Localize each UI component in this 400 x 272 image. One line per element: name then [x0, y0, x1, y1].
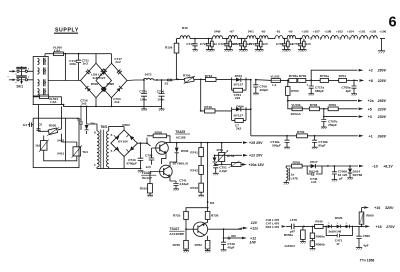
svg-text:–10: –10: [372, 165, 378, 169]
svg-text:+101: +101: [358, 30, 365, 34]
capacitor C722 1n to ground: [200, 38, 211, 52]
svg-text:BY164: BY164: [118, 140, 128, 144]
junction node: [140, 142, 148, 144]
ground under C7008: [332, 180, 338, 182]
svg-text:D502: D502: [122, 123, 130, 127]
bridge D502 stub: [123, 127, 125, 130]
svg-text:-67: -67: [229, 30, 234, 34]
arrow +16 320V: [362, 206, 394, 210]
wire chain segments: [190, 38, 385, 40]
svg-text:400µF: 400µF: [259, 88, 268, 92]
diode D498a on bridge edge: [101, 69, 107, 75]
arrow +16 270V: [362, 225, 396, 229]
resistor P540: [304, 219, 326, 228]
drawing number TTV 1958: [360, 259, 375, 263]
label 1n5404: [284, 244, 295, 248]
inductor -60: [287, 30, 295, 39]
svg-text:D520: D520: [335, 216, 343, 220]
resistor beside C724: [258, 39, 268, 52]
svg-text:1n: 1n: [214, 42, 218, 46]
wire TS425 emitter down: [162, 153, 167, 158]
svg-text:S1: S1: [165, 81, 169, 85]
diode D520a: [326, 223, 331, 229]
bridge diamond left outline: [81, 63, 112, 98]
svg-text:G4: G4: [23, 123, 27, 127]
rail to TS427: [186, 207, 209, 212]
ground under R566b: [310, 249, 316, 251]
ground under C741: [173, 189, 179, 191]
svg-text:250µF: 250µF: [328, 123, 337, 127]
svg-text:1,4: 1,4: [272, 83, 277, 87]
thermistor R503: [35, 139, 64, 152]
svg-text:T6/S: T6/S: [100, 125, 108, 129]
diode D500b on bridge edge: [85, 86, 91, 92]
wire down from bus: [64, 54, 66, 81]
svg-text:C770: C770: [139, 89, 147, 93]
svg-text:1n5: 1n5: [306, 42, 312, 46]
junction node: [95, 106, 112, 108]
measuring point M1: [207, 201, 215, 205]
svg-text:+105: +105: [302, 30, 309, 34]
svg-text:100n: 100n: [69, 62, 76, 66]
arrow +2 280V: [359, 69, 387, 73]
capacitor C770 100n: [139, 80, 147, 106]
capacitor C706b 400uF: [253, 79, 268, 93]
label BTY86: [173, 161, 189, 165]
inductor +105: [302, 30, 378, 39]
svg-text:+5: +5: [368, 107, 372, 111]
svg-text:-65: -65: [261, 30, 266, 34]
svg-text:12V: 12V: [251, 221, 258, 225]
svg-text:D517: D517: [310, 160, 318, 164]
capacitor C718b 80uF: [312, 135, 328, 148]
svg-text:320V: 320V: [385, 206, 394, 210]
ground under C707b: [321, 127, 327, 129]
junction node: [323, 108, 325, 110]
label C704 2n2: [113, 97, 121, 104]
svg-text:R566b: R566b: [316, 242, 325, 246]
zener D514: [345, 165, 363, 178]
fuse VL502: [256, 75, 289, 87]
ground under C743: [138, 168, 144, 173]
label D520: [335, 216, 343, 220]
junction node: [200, 79, 202, 81]
svg-text:R742: R742: [190, 168, 198, 172]
right rail of diode section: [246, 79, 252, 136]
svg-text:TH1: TH1: [82, 150, 88, 154]
wire D502 to TS425: [137, 138, 150, 146]
choke 5473: [144, 73, 154, 80]
filter winding 1: [38, 58, 46, 65]
ground under R510: [147, 195, 153, 197]
svg-text:2k2: 2k2: [235, 96, 240, 100]
svg-text:260V: 260V: [377, 134, 387, 138]
svg-text:270V: 270V: [385, 225, 395, 229]
lower bus wire 2: [64, 105, 162, 107]
resistor R742: [190, 157, 203, 175]
svg-text:3xBA148: 3xBA148: [328, 230, 341, 234]
svg-text:R556a: R556a: [284, 233, 293, 237]
svg-text:100n: 100n: [140, 97, 147, 101]
label D502: [122, 123, 130, 127]
transistor TS426: [157, 158, 172, 177]
svg-text:230V: 230V: [377, 115, 387, 119]
svg-text:1: 1: [94, 163, 96, 167]
fuse VL500: [53, 46, 64, 56]
label BY164: [118, 140, 128, 144]
capacitor C711 on bridge edge: [86, 70, 91, 75]
capacitor C560 4uF: [356, 226, 370, 247]
svg-text:BY127: BY127: [234, 114, 244, 118]
capacitor C717 on bridge edge: [117, 70, 122, 75]
svg-text:220V: 220V: [377, 107, 387, 111]
diode D498b on bridge edge: [117, 86, 123, 92]
svg-text:-61: -61: [276, 30, 281, 34]
inductor +103: [336, 30, 343, 34]
bridge diamond right outline: [96, 63, 127, 98]
svg-text:µF: µF: [339, 177, 343, 181]
svg-text:1n5: 1n5: [311, 180, 317, 184]
junction node: [200, 142, 202, 144]
capacitor C471 bypass: [325, 226, 353, 247]
arrow into net: [282, 225, 291, 227]
svg-text:R741: R741: [190, 151, 198, 155]
svg-text:D501: D501: [235, 74, 243, 78]
label bridge types: [91, 73, 114, 86]
junction node: [78, 53, 80, 55]
svg-text:B46: B46: [182, 26, 188, 30]
svg-text:40µF: 40µF: [227, 246, 234, 250]
wire bridge output: [127, 79, 144, 82]
ground under R730: [183, 249, 189, 253]
svg-text:L478: L478: [290, 218, 297, 222]
arrow +8 225V: [360, 79, 387, 83]
svg-text:SUPPLY: SUPPLY: [55, 27, 79, 33]
arrow +5 220V: [359, 107, 387, 111]
thermistor TH1: [57, 145, 88, 158]
arrow +2s 285V: [358, 99, 387, 103]
capacitor C717a 680uF: [307, 80, 325, 93]
svg-text:BY127: BY127: [234, 83, 244, 87]
wire bus down-left of bridge: [48, 80, 80, 82]
diode D517: [307, 160, 328, 173]
svg-text:+107: +107: [313, 30, 320, 34]
capacitor C704b on bridge edge: [101, 87, 106, 92]
resistor R704a: [311, 74, 339, 82]
svg-text:R560: R560: [366, 214, 374, 218]
wires inside box: [39, 118, 77, 161]
wire connector to filter: [28, 71, 34, 80]
resistor R708b: [309, 103, 328, 111]
label C5: [36, 122, 42, 130]
inductor -67: [229, 30, 238, 39]
capacitor C710 100n: [69, 54, 81, 81]
bridge stubs to top bus: [96, 54, 112, 64]
svg-text:P540: P540: [315, 219, 323, 223]
filter winding 4: [38, 88, 46, 95]
ground under C560: [356, 248, 362, 250]
svg-text:285V: 285V: [377, 99, 387, 103]
svg-text:D498: D498: [107, 82, 115, 86]
svg-text:+25 25V: +25 25V: [249, 141, 263, 145]
svg-text:4µF: 4µF: [363, 244, 369, 248]
capacitor C749 40uF: [221, 237, 235, 250]
svg-text:+104: +104: [347, 30, 354, 34]
svg-text:R704: R704: [339, 74, 347, 78]
ground under R556: [300, 242, 306, 244]
starter circuit box: [33, 118, 79, 167]
resistor R711 on +1 line: [297, 130, 308, 138]
diode D511 between rails: [213, 155, 217, 164]
svg-text:R756: R756: [183, 73, 191, 77]
resistor R720 on +20a line: [228, 161, 242, 168]
wire TS425 collector to +25 rail: [166, 142, 208, 144]
diode D520c: [341, 223, 362, 229]
ground under C708a: [351, 94, 357, 96]
svg-text:M3: M3: [231, 234, 236, 238]
capacitor C706 100n: [157, 80, 165, 106]
svg-text:+22 20V: +22 20V: [249, 154, 263, 158]
wire chain end down: [381, 39, 383, 51]
svg-text:R706a R706: R706a R706: [289, 74, 307, 78]
ground under R762: [205, 249, 211, 253]
resistor beside C722: [209, 39, 217, 52]
svg-text:4,64µF: 4,64µF: [179, 182, 189, 186]
wire TS426 emitter down: [150, 172, 176, 184]
capacitor C708 1n5: [145, 148, 154, 169]
svg-text:C720: C720: [218, 42, 226, 46]
svg-text:D500: D500: [91, 82, 99, 86]
svg-text:SK1: SK1: [16, 85, 23, 89]
capacitor C716 on bridge edge: [101, 87, 106, 92]
svg-text:-60: -60: [288, 30, 293, 34]
wire TS426 collector up to zener: [170, 159, 177, 167]
svg-text:2,2µF: 2,2µF: [219, 169, 227, 173]
resistor R708 feedback: [147, 130, 170, 142]
label C716 2n2: [80, 98, 88, 105]
page number 6: [389, 15, 397, 31]
svg-text:+8,1V: +8,1V: [383, 165, 393, 169]
capacitor C743 4700uF: [126, 143, 143, 168]
svg-text:R704a: R704a: [320, 74, 329, 78]
capacitor C750 1n to ground: [276, 38, 287, 52]
svg-text:2k2: 2k2: [236, 127, 241, 131]
connector SK1 contacts: [16, 68, 28, 89]
resistor R741: [190, 143, 203, 157]
svg-text:C706: C706: [157, 89, 165, 93]
svg-text:BZY88: BZY88: [353, 173, 363, 177]
line filter box: [33, 57, 48, 97]
ground under C718a: [284, 147, 290, 149]
resistor R703 parallel: [232, 107, 246, 130]
capacitor X2 across mains: [16, 76, 26, 77]
svg-text:VL502: VL502: [270, 75, 279, 79]
transformer core: [101, 130, 104, 169]
arrow -10 8.1V: [359, 165, 393, 169]
ground under C749: [221, 250, 227, 252]
arrow +25 25V: [243, 141, 263, 145]
resistor R560 vertical: [359, 208, 374, 227]
capacitor L478 u47: [290, 218, 304, 233]
svg-text:+20a 18V: +20a 18V: [248, 163, 264, 167]
svg-text:+16: +16: [374, 206, 380, 210]
left rail down: [200, 79, 202, 111]
inductor +102: [369, 30, 376, 34]
junction node: [65, 53, 67, 55]
junction wire to R720: [215, 164, 232, 166]
lower bus wire 1: [33, 96, 64, 105]
svg-text:R700: R700: [291, 89, 299, 93]
svg-text:R510: R510: [140, 187, 148, 191]
measuring point M3: [224, 229, 243, 239]
svg-text:C723: C723: [233, 42, 241, 46]
capacitor C7008: [328, 165, 348, 181]
inductor 54/1: [247, 30, 256, 39]
fuse VL503: [291, 103, 310, 116]
svg-text:C717: C717: [186, 42, 194, 46]
inductor -61: [275, 30, 283, 39]
inductor +107: [313, 30, 320, 34]
svg-text:R156: R156: [165, 45, 173, 49]
resistor R704: [339, 74, 358, 82]
svg-text:R725: R725: [173, 214, 181, 218]
svg-text:2n2: 2n2: [81, 102, 87, 106]
ground under C706b: [253, 93, 259, 95]
wire filter top to bus: [44, 54, 46, 57]
svg-text:+2: +2: [369, 69, 373, 73]
wire D502 bottom: [123, 157, 125, 169]
varistor R756 on line: [183, 73, 201, 83]
svg-text:M1: M1: [210, 201, 215, 205]
junction node: [80, 106, 87, 108]
diode D502b: [126, 134, 134, 140]
wire taps from lower bus to box: [39, 105, 62, 119]
resistor beside C751: [301, 39, 311, 52]
diode D520b: [332, 223, 341, 229]
svg-text:470k: 470k: [216, 148, 223, 152]
arrow +12: [242, 236, 256, 244]
wire link to R718: [172, 78, 184, 81]
svg-text:C5: C5: [77, 118, 81, 122]
svg-text:D503: D503: [181, 149, 189, 153]
resistor R726: [205, 211, 218, 222]
capacitor C741: [173, 178, 189, 188]
svg-text:9: 9: [94, 130, 96, 134]
transformer T6/S label: [100, 125, 108, 129]
resistor R556 vertical: [284, 226, 305, 241]
resistor R700 vertical: [286, 80, 299, 100]
off-page reference text block: [266, 218, 280, 229]
junction node output: [223, 228, 225, 230]
svg-text:TTv 1958: TTv 1958: [360, 259, 375, 263]
capacitor C751 1n5 to ground: [292, 38, 303, 52]
junction node: [143, 79, 162, 81]
junction node: [327, 165, 329, 167]
winding L478: [286, 166, 298, 181]
svg-text:+103: +103: [336, 30, 343, 34]
resistor R708c: [292, 160, 308, 168]
label C717 2n2: [114, 57, 122, 64]
fuse VL501: [33, 95, 61, 105]
resistor R566a vertical: [310, 226, 325, 238]
svg-text:R730: R730: [173, 243, 181, 247]
capacitor X1 across mains: [16, 66, 26, 69]
diode D500a on bridge edge: [101, 69, 107, 75]
junction node: [310, 80, 312, 82]
svg-text:4700µF: 4700µF: [126, 162, 137, 166]
capacitor C718a 200uF: [270, 135, 289, 148]
svg-text:5473: 5473: [145, 73, 152, 77]
label 3xBA148: [328, 230, 341, 234]
svg-text:54/1: 54/1: [248, 30, 254, 34]
capacitor C724 1n5 to ground: [249, 38, 260, 52]
wire TS427 collector: [205, 221, 208, 224]
label TS426: [141, 171, 156, 180]
svg-text:+2s: +2s: [368, 99, 374, 103]
svg-text:1n5: 1n5: [146, 165, 152, 169]
svg-text:2n2: 2n2: [114, 100, 120, 104]
zener D503: [175, 142, 189, 159]
filter winding 3: [38, 79, 46, 86]
inductor +104: [347, 30, 354, 34]
ground after C770: [141, 106, 147, 111]
inductor +101: [358, 30, 365, 34]
potentiometer R753: [216, 142, 235, 165]
svg-text:R753: R753: [227, 154, 235, 158]
svg-text:+3: +3: [368, 115, 372, 119]
svg-text:+1: +1: [369, 134, 373, 138]
resistor R718: [201, 74, 232, 82]
svg-text:C750: C750: [276, 42, 284, 46]
resistor R725: [173, 211, 188, 229]
svg-text:100n: 100n: [157, 97, 164, 101]
capacitor C720 1n5 to ground: [218, 38, 229, 52]
svg-text:+100: +100: [379, 30, 386, 34]
capacitor on box left edge: [28, 122, 33, 127]
resistor R156 vertical: [165, 39, 179, 80]
svg-text:C751: C751: [292, 42, 300, 46]
svg-text:80µF: 80µF: [318, 144, 325, 148]
svg-text:D16 L476: D16 L476: [266, 225, 280, 229]
svg-text:6: 6: [111, 133, 113, 137]
+25 rail wire: [207, 142, 242, 144]
resistor R709: [328, 103, 358, 111]
transistor TS427: [186, 222, 208, 236]
ground after C706: [159, 106, 165, 111]
arrow +20a 18V: [242, 163, 264, 167]
ground under R743: [198, 195, 204, 197]
link connector S1: [165, 79, 173, 85]
label C711 2n2: [82, 58, 90, 65]
ground chain end: [378, 51, 385, 54]
ground under C717a: [308, 94, 314, 96]
resistor R566b vertical: [310, 226, 325, 249]
svg-text:+8: +8: [369, 79, 373, 83]
resistor R730: [173, 228, 189, 249]
svg-text:C722: C722: [200, 42, 208, 46]
svg-text:2µF: 2µF: [346, 89, 352, 93]
+2s line: [287, 100, 357, 102]
wire chain start from R156: [176, 39, 180, 44]
arrow +1 260V: [359, 134, 387, 138]
arrow +3 230V: [359, 115, 387, 119]
vertical rail M1: [207, 143, 209, 208]
svg-text:R743: R743: [190, 186, 198, 190]
wire contacts to wires: [19, 71, 25, 80]
svg-text:+16: +16: [376, 225, 382, 229]
junction node: [361, 226, 363, 228]
label +100: [379, 30, 386, 34]
